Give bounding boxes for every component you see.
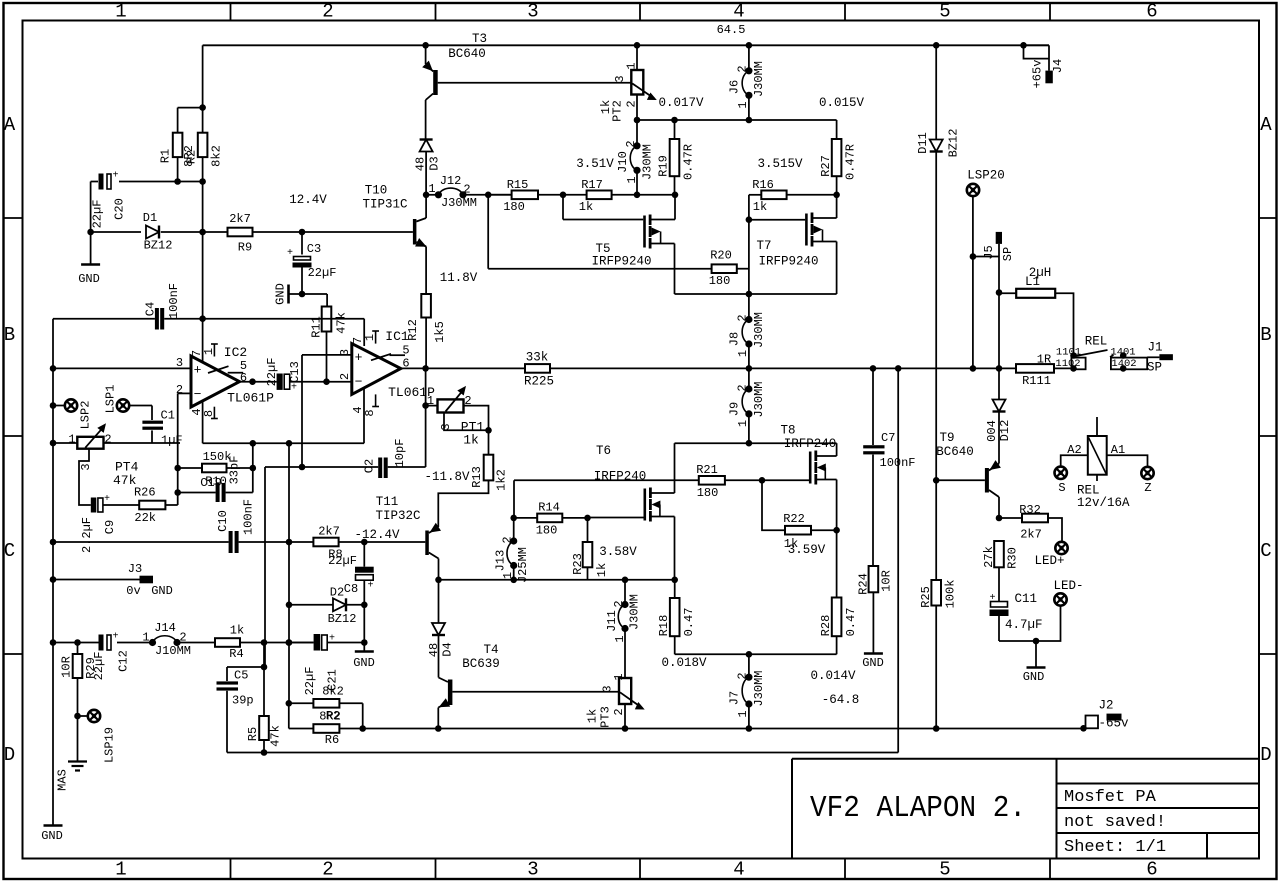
- svg-text:2k7: 2k7: [229, 212, 251, 226]
- trimmer PT3: [619, 678, 631, 704]
- svg-text:1: 1: [624, 62, 638, 69]
- svg-text:BC640: BC640: [936, 445, 974, 459]
- svg-text:004: 004: [985, 420, 999, 442]
- svg-text:2k7: 2k7: [1020, 528, 1042, 542]
- wire feedback bottom y=752.5: [227, 752, 898, 754]
- svg-text:0.47: 0.47: [682, 608, 696, 637]
- resistor R29: [77, 643, 79, 655]
- svg-text:10pF: 10pF: [393, 439, 407, 468]
- svg-text:T4: T4: [483, 643, 498, 657]
- node 12.4V wire: [91, 231, 141, 233]
- svg-text:R1: R1: [158, 149, 172, 163]
- svg-text:C3: C3: [307, 242, 321, 256]
- wire R21 row: [514, 479, 699, 481]
- resistor R32: [999, 517, 1022, 519]
- wire T5 drain: [650, 219, 675, 221]
- svg-text:R32: R32: [1019, 503, 1041, 517]
- svg-text:not saved!: not saved!: [1064, 813, 1166, 832]
- svg-text:IRFP9240: IRFP9240: [758, 255, 818, 269]
- capacitor C1: [142, 421, 163, 424]
- svg-text:-12.4V: -12.4V: [354, 528, 400, 542]
- svg-text:1: 1: [736, 420, 750, 427]
- svg-text:TL061P: TL061P: [227, 391, 274, 406]
- svg-text:J1: J1: [1147, 341, 1162, 355]
- svg-text:R5: R5: [246, 727, 260, 741]
- svg-text:3: 3: [527, 1, 538, 23]
- svg-text:100nF: 100nF: [241, 499, 255, 535]
- svg-text:0v: 0v: [126, 584, 140, 598]
- svg-text:22µF: 22µF: [92, 652, 106, 681]
- svg-text:C1: C1: [161, 409, 175, 423]
- svg-text:J30MM: J30MM: [752, 61, 766, 97]
- diode D4: [438, 580, 440, 623]
- wire R1 top tie: [178, 107, 203, 109]
- svg-text:C8: C8: [344, 582, 358, 596]
- svg-text:TIP32C: TIP32C: [375, 509, 420, 523]
- svg-text:C7: C7: [881, 431, 895, 445]
- wire +65V top rail: [203, 44, 1049, 46]
- svg-text:22µF: 22µF: [90, 200, 104, 229]
- column numbers top: [115, 1, 1157, 23]
- resistor R9: [228, 228, 253, 237]
- trimmer PT1: [426, 405, 438, 407]
- solder pad LED+: [1055, 542, 1067, 554]
- svg-text:C13: C13: [288, 361, 302, 383]
- wire T6 drain riser: [674, 443, 676, 493]
- svg-text:2k7: 2k7: [318, 525, 340, 539]
- svg-text:J12: J12: [440, 174, 462, 188]
- svg-text:2.2µF: 2.2µF: [80, 517, 94, 553]
- svg-text:J7: J7: [727, 691, 741, 705]
- svg-text:2: 2: [735, 65, 749, 72]
- svg-text:J14: J14: [154, 621, 176, 635]
- capacitor C9: [91, 498, 97, 513]
- wire C5 top row: [227, 666, 264, 668]
- capacitor C4: [155, 308, 159, 330]
- svg-text:0.018V: 0.018V: [661, 656, 707, 670]
- trimmer PT4: [77, 437, 103, 449]
- wire PT1 pin2: [464, 406, 489, 431]
- svg-text:+: +: [367, 581, 373, 592]
- wire T3 base to PT2: [438, 82, 632, 84]
- resistor R4: [215, 638, 240, 647]
- svg-text:3.59V: 3.59V: [788, 543, 826, 557]
- svg-text:D12: D12: [998, 420, 1012, 442]
- resistor R19: [674, 120, 676, 139]
- svg-text:47k: 47k: [268, 725, 282, 747]
- svg-text:2: 2: [735, 314, 749, 321]
- svg-text:J30MM: J30MM: [441, 196, 477, 210]
- svg-text:SP: SP: [1147, 361, 1162, 375]
- resistor R2: [198, 133, 208, 157]
- svg-text:+: +: [104, 494, 110, 505]
- svg-text:10R: 10R: [59, 656, 73, 678]
- svg-text:J2: J2: [1098, 699, 1113, 713]
- svg-text:BZ12: BZ12: [144, 239, 173, 253]
- border column ticks bottom: [231, 859, 1051, 880]
- row letters left: [4, 114, 16, 766]
- svg-text:1402: 1402: [1111, 358, 1136, 370]
- wire bias row y=120: [637, 119, 837, 121]
- resistor R22: [762, 480, 785, 530]
- svg-text:27k: 27k: [982, 546, 996, 568]
- svg-text:+: +: [287, 248, 293, 259]
- jumper J8: [748, 294, 750, 320]
- svg-text:-11.8V: -11.8V: [424, 470, 470, 484]
- svg-text:0.47: 0.47: [844, 608, 858, 637]
- svg-text:R23: R23: [571, 553, 585, 575]
- wire source join y=294: [675, 293, 837, 295]
- svg-text:100k: 100k: [943, 580, 957, 609]
- svg-text:1: 1: [625, 176, 639, 183]
- svg-text:J13: J13: [493, 550, 507, 572]
- svg-text:1µF: 1µF: [161, 434, 183, 448]
- wire 12.4V to T10 base: [253, 231, 413, 233]
- svg-text:J30MM: J30MM: [640, 144, 654, 180]
- svg-text:J30MM: J30MM: [752, 381, 766, 417]
- svg-text:R26: R26: [134, 486, 156, 500]
- wire source row y=654: [675, 653, 837, 655]
- svg-text:0.017V: 0.017V: [658, 96, 704, 110]
- wire T5 source: [650, 243, 674, 245]
- svg-text:1: 1: [736, 710, 750, 717]
- svg-text:3: 3: [613, 75, 627, 82]
- svg-text:6: 6: [1146, 1, 1157, 23]
- svg-text:+: +: [112, 171, 118, 182]
- svg-text:3: 3: [600, 685, 614, 692]
- solder pad LSP1: [117, 399, 129, 411]
- svg-text:2: 2: [104, 433, 111, 447]
- svg-text:R4: R4: [229, 647, 243, 661]
- wire C2 to IC1 output: [388, 466, 426, 468]
- wire T6 gate: [588, 517, 644, 519]
- svg-text:1401: 1401: [1110, 347, 1135, 359]
- svg-text:J30MM: J30MM: [752, 312, 766, 348]
- svg-text:R225: R225: [524, 375, 554, 389]
- wire input row y=642: [53, 642, 99, 644]
- wire C10 row: [53, 541, 229, 543]
- resistor R26: [139, 501, 165, 510]
- svg-text:R25: R25: [919, 586, 933, 608]
- svg-text:J8: J8: [727, 332, 741, 346]
- diode D12: [998, 368, 1000, 399]
- svg-text:LSP19: LSP19: [102, 727, 116, 763]
- wire T6 drain stub: [650, 492, 674, 494]
- svg-text:8k2: 8k2: [322, 685, 344, 699]
- svg-text:1: 1: [202, 348, 216, 355]
- ground bottom left: [44, 824, 63, 827]
- svg-text:D3: D3: [427, 156, 441, 170]
- wire R21 to T8 gate: [725, 479, 809, 481]
- svg-text:0.015V: 0.015V: [819, 96, 865, 110]
- svg-text:R15: R15: [507, 178, 529, 192]
- wire PT4 pin3 to C9: [79, 449, 91, 505]
- svg-text:R13: R13: [470, 466, 484, 488]
- resistor R23: [587, 518, 589, 542]
- resistor R14: [510, 515, 517, 522]
- svg-text:GND: GND: [273, 283, 287, 305]
- svg-text:180: 180: [536, 524, 558, 538]
- svg-text:4: 4: [733, 1, 744, 23]
- svg-text:22µF: 22µF: [303, 667, 317, 696]
- svg-text:1k: 1k: [230, 624, 244, 638]
- svg-text:R9: R9: [238, 241, 252, 255]
- svg-text:J4: J4: [1051, 59, 1065, 73]
- svg-text:C2: C2: [362, 459, 376, 473]
- svg-text:39p: 39p: [232, 694, 254, 708]
- svg-text:T6: T6: [596, 444, 611, 458]
- wire C1 bottom: [151, 430, 153, 443]
- svg-text:J10MM: J10MM: [155, 644, 191, 658]
- svg-text:C10: C10: [216, 510, 230, 532]
- svg-text:10R: 10R: [879, 570, 893, 592]
- wire feedback riser x=898: [897, 368, 899, 752]
- wire R26 to feedback node: [165, 504, 177, 506]
- wire PT2 pin2 to J10: [636, 95, 638, 146]
- wire R15-R17: [538, 194, 587, 196]
- svg-text:1: 1: [501, 572, 515, 579]
- mosfet T8 IRFP240: [809, 452, 812, 484]
- ground under C11: [1035, 641, 1037, 667]
- svg-text:0.47R: 0.47R: [843, 144, 857, 180]
- jumper J6: [746, 42, 753, 49]
- svg-text:+: +: [194, 363, 202, 378]
- wire R10 row: [178, 467, 202, 469]
- svg-text:J25MM: J25MM: [516, 547, 530, 583]
- svg-text:+: +: [112, 632, 118, 643]
- svg-text:B: B: [1260, 324, 1271, 346]
- border row ticks right: [1259, 218, 1277, 654]
- svg-text:LSP2: LSP2: [78, 401, 92, 430]
- svg-text:R24: R24: [856, 573, 870, 595]
- capacitor C3: [301, 232, 303, 255]
- svg-text:J5: J5: [982, 245, 996, 259]
- svg-text:1: 1: [427, 394, 434, 408]
- jumper J14: [149, 639, 156, 646]
- wire R12 to IC1 output node: [425, 318, 427, 369]
- svg-text:S: S: [1058, 481, 1065, 495]
- svg-text:12.4V: 12.4V: [289, 193, 327, 207]
- svg-text:4.7µF: 4.7µF: [1005, 618, 1043, 632]
- svg-text:R16: R16: [752, 178, 774, 192]
- svg-text:GND: GND: [41, 829, 63, 843]
- svg-text:5: 5: [939, 859, 950, 881]
- capacitor C11: [991, 602, 1008, 608]
- capacitor C7: [872, 368, 874, 445]
- wire R11 bottom to IC1 input: [326, 332, 328, 382]
- svg-text:1: 1: [68, 433, 75, 447]
- svg-text:VF2 ALAPON 2.: VF2 ALAPON 2.: [810, 791, 1026, 826]
- svg-text:D: D: [1260, 744, 1271, 766]
- transistor T9 BC640: [936, 455, 1001, 518]
- ground under C8 node: [355, 650, 374, 653]
- relay coil REL 12v/16A: [1088, 417, 1107, 481]
- svg-text:+: +: [291, 383, 297, 394]
- wire R2 right drop: [339, 702, 362, 704]
- transistor T3 BC640: [422, 42, 438, 139]
- svg-text:A: A: [1260, 114, 1272, 136]
- svg-text:100nF: 100nF: [167, 283, 181, 319]
- resistor R16: [749, 194, 761, 196]
- svg-text:2: 2: [624, 140, 638, 147]
- wire PT1 pin3: [444, 413, 489, 431]
- svg-text:T11: T11: [376, 495, 399, 509]
- wire C13 to IC1 pin2: [290, 381, 352, 383]
- solder pad LSP19: [88, 710, 100, 722]
- resistor R18: [674, 580, 676, 598]
- wire T7 drain: [812, 217, 837, 219]
- diode D11 BZ12: [935, 45, 937, 139]
- svg-text:D1: D1: [143, 211, 157, 225]
- ground under D1: [90, 232, 92, 265]
- wire T8 drain: [816, 455, 837, 457]
- resistor R15: [512, 191, 538, 200]
- svg-text:LSP1: LSP1: [103, 385, 117, 414]
- wire IC1 pin3: [302, 354, 352, 356]
- diode D3: [420, 140, 433, 152]
- svg-text:2: 2: [735, 384, 749, 391]
- svg-text:+: +: [989, 593, 995, 604]
- row letters right: [1260, 114, 1272, 766]
- svg-text:J10: J10: [616, 151, 630, 173]
- svg-text:2: 2: [735, 672, 749, 679]
- svg-text:1: 1: [428, 182, 435, 196]
- inductor L1: [999, 292, 1016, 294]
- svg-text:6: 6: [240, 371, 247, 385]
- svg-text:R20: R20: [710, 249, 732, 263]
- svg-text:48: 48: [413, 157, 427, 171]
- jumper J7: [748, 654, 750, 677]
- capacitor C21: [289, 642, 314, 644]
- wire D11 to T9 base node: [935, 152, 937, 481]
- connector J2 -65v: [1080, 714, 1121, 732]
- svg-text:IRFP9240: IRFP9240: [591, 255, 651, 269]
- transistor T4 BC639: [435, 673, 452, 732]
- trimmer PT2: [636, 45, 638, 70]
- wire input bus x=53: [52, 319, 54, 826]
- wire IC1 output: [401, 367, 426, 369]
- svg-text:Z: Z: [1144, 481, 1151, 495]
- svg-text:MAS: MAS: [55, 769, 69, 791]
- svg-text:D: D: [4, 744, 15, 766]
- svg-text:22µF: 22µF: [265, 358, 279, 387]
- svg-text:6: 6: [1146, 859, 1157, 881]
- svg-text:IC2: IC2: [224, 345, 247, 360]
- svg-text:B: B: [4, 324, 15, 346]
- wire -65v bottom rail: [339, 728, 1083, 730]
- resistor R28: [836, 530, 838, 597]
- svg-text:LSP20: LSP20: [967, 169, 1005, 183]
- wire T11 collector row: [439, 579, 675, 581]
- resistor R30: [994, 541, 1004, 567]
- svg-text:2: 2: [338, 373, 352, 380]
- svg-text:C20: C20: [112, 198, 126, 220]
- svg-text:PT2: PT2: [610, 100, 624, 122]
- capacitor C19: [178, 492, 216, 494]
- svg-text:R18: R18: [657, 615, 671, 637]
- svg-text:+: +: [355, 350, 363, 365]
- svg-text:+65v: +65v: [1030, 60, 1044, 89]
- svg-text:1: 1: [142, 631, 149, 645]
- svg-text:33k: 33k: [526, 351, 549, 365]
- svg-text:1k: 1k: [579, 200, 593, 214]
- wire C20 left drop: [90, 182, 92, 233]
- wire bus y=443: [203, 442, 364, 444]
- svg-text:C12: C12: [116, 650, 130, 672]
- capacitor C2: [378, 458, 382, 479]
- resistor R11: [322, 307, 332, 332]
- diode D2 BZ12: [289, 604, 333, 606]
- capacitor C20: [99, 174, 104, 190]
- svg-text:A: A: [4, 114, 16, 136]
- svg-text:R27: R27: [819, 155, 833, 177]
- wire R32 to LED+: [1048, 518, 1062, 542]
- svg-text:33pF: 33pF: [227, 456, 241, 485]
- wire C8 to GND: [363, 580, 365, 651]
- svg-text:R14: R14: [538, 501, 560, 515]
- border row ticks left: [4, 218, 23, 654]
- wire J12 node drop: [487, 195, 489, 269]
- svg-text:180: 180: [503, 200, 525, 214]
- svg-text:D11: D11: [916, 132, 930, 154]
- svg-text:2: 2: [500, 536, 514, 543]
- resistor R6: [313, 724, 339, 733]
- resistor R10: [202, 464, 227, 473]
- svg-text:SP: SP: [1001, 247, 1015, 261]
- svg-text:5: 5: [402, 344, 409, 358]
- wire y=467 row: [265, 466, 378, 468]
- wire C20 row: [91, 181, 98, 183]
- transistor T11 TIP32C: [425, 523, 441, 580]
- svg-text:8: 8: [363, 409, 377, 416]
- resistor R225 33k: [525, 364, 550, 373]
- svg-text:J11: J11: [605, 610, 619, 632]
- svg-text:R28: R28: [819, 615, 833, 637]
- wire C19 right riser: [252, 443, 254, 492]
- svg-text:−: −: [355, 375, 363, 390]
- svg-text:J3: J3: [128, 562, 142, 576]
- svg-text:5: 5: [939, 1, 950, 23]
- wire IC2 output: [240, 381, 277, 383]
- svg-text:1102: 1102: [1055, 358, 1080, 370]
- svg-text:C: C: [4, 540, 15, 562]
- wire PT3 pin2: [624, 704, 626, 729]
- svg-text:BZ12: BZ12: [328, 612, 357, 626]
- ground under R24: [872, 592, 874, 653]
- resistor R2 bottom: [313, 699, 339, 708]
- relay contact 1101/1102: [1070, 350, 1107, 372]
- earth MAS: [77, 716, 79, 762]
- svg-text:R21: R21: [696, 463, 718, 477]
- solder pad LSP2: [65, 399, 77, 411]
- svg-text:47k: 47k: [334, 312, 348, 334]
- svg-text:C5: C5: [234, 669, 248, 683]
- svg-text:1: 1: [736, 350, 750, 357]
- svg-text:1: 1: [363, 334, 377, 341]
- svg-text:T7: T7: [756, 239, 771, 253]
- relay contact 1401/1402: [1110, 352, 1147, 372]
- svg-text:R2: R2: [326, 709, 340, 723]
- jumper J9: [748, 368, 750, 389]
- svg-text:180: 180: [709, 274, 731, 288]
- resistor R25: [935, 480, 937, 580]
- svg-text:T8: T8: [780, 424, 795, 438]
- svg-text:LED-: LED-: [1053, 579, 1083, 593]
- svg-text:T10: T10: [365, 184, 388, 198]
- svg-text:BZ12: BZ12: [946, 129, 960, 158]
- svg-text:GND: GND: [1023, 670, 1045, 684]
- wire drain row y=443: [675, 442, 837, 444]
